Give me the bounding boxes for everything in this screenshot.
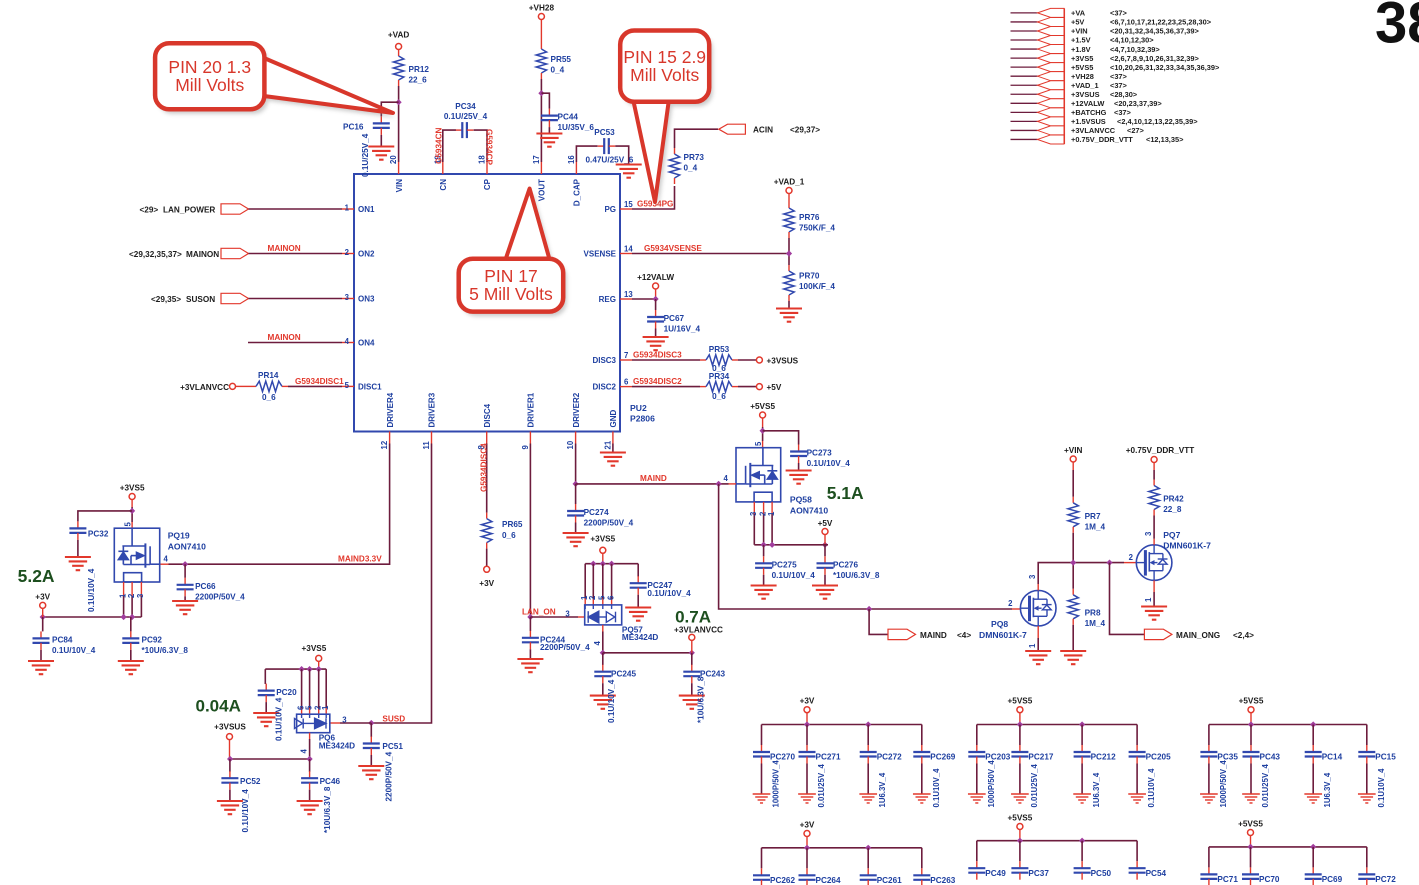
wire bbox=[806, 837, 808, 848]
svg-text:+0.75V_DDR_VTT: +0.75V_DDR_VTT bbox=[1126, 446, 1195, 455]
power rail legend bus bbox=[1064, 8, 1066, 144]
svg-text:+1.8V: +1.8V bbox=[1071, 45, 1091, 54]
legend rail +1.8V bbox=[1011, 45, 1161, 54]
ground bbox=[751, 586, 777, 599]
wire PC92 to ground bbox=[130, 650, 132, 661]
net SUSON labels bbox=[151, 295, 215, 304]
net ACIN labels bbox=[753, 126, 820, 135]
svg-text:<29,37>: <29,37> bbox=[790, 126, 820, 135]
capacitor PC264 bbox=[799, 868, 816, 885]
wire to PC50 bbox=[1081, 841, 1083, 862]
ground bbox=[1025, 651, 1051, 664]
wire PC205 to ground bbox=[1136, 764, 1138, 794]
wire PQ19 source rail bbox=[43, 616, 142, 618]
IC top pin names bbox=[395, 178, 582, 206]
svg-text:PR53: PR53 bbox=[709, 345, 730, 354]
svg-text:0.1U/10V_4: 0.1U/10V_4 bbox=[647, 589, 691, 598]
ground bbox=[65, 557, 91, 570]
wire to MAIN_ONG arrow bbox=[1110, 563, 1145, 635]
svg-text:+12VALW: +12VALW bbox=[1071, 99, 1104, 108]
svg-text:<6,7,10,17,21,22,23,25,28,30>: <6,7,10,17,21,22,23,25,28,30> bbox=[1110, 18, 1212, 27]
capacitor PC247 labels bbox=[647, 581, 691, 598]
wire PR73 to ACIN bbox=[675, 129, 719, 148]
terminal +3VS5 PQ19 bbox=[129, 494, 135, 500]
svg-text:PR7: PR7 bbox=[1085, 512, 1101, 521]
capacitor PC92 bbox=[122, 631, 139, 650]
svg-text:G5934DISC2: G5934DISC2 bbox=[633, 377, 682, 386]
svg-text:1: 1 bbox=[1028, 643, 1037, 648]
wire PR42 to PQ7 drain bbox=[1153, 516, 1155, 539]
wire PQ7 source to ground bbox=[1153, 592, 1155, 606]
wire pin13 REG bbox=[632, 298, 656, 300]
ground bbox=[297, 801, 323, 814]
resistor PR7 labels bbox=[1085, 512, 1106, 532]
wire to PC245 bbox=[602, 653, 604, 665]
svg-text:0.1U10V_4: 0.1U10V_4 bbox=[1377, 768, 1386, 808]
svg-text:+3VS5: +3VS5 bbox=[120, 484, 145, 493]
wire PC66 to ground bbox=[184, 596, 186, 600]
svg-text:DMN601K-7: DMN601K-7 bbox=[979, 630, 1027, 640]
ground bbox=[563, 533, 589, 546]
wire to PC66 bbox=[184, 564, 186, 578]
junction PC245 bbox=[600, 650, 606, 656]
svg-text:CN: CN bbox=[439, 179, 448, 191]
wire PC51 to ground bbox=[370, 755, 372, 766]
cap bank +5VS5 rail bbox=[1209, 846, 1367, 848]
transistor PQ7 DMN601K-7 bbox=[1136, 545, 1172, 581]
net MAINON labels pin2 bbox=[129, 250, 219, 259]
wire to PC262 bbox=[761, 848, 763, 869]
svg-text:G5934DISC1: G5934DISC1 bbox=[295, 377, 344, 386]
resistor PR8 labels bbox=[1085, 609, 1106, 629]
svg-text:REG: REG bbox=[599, 295, 616, 304]
svg-text:5: 5 bbox=[123, 522, 132, 527]
cap bank +5VS5 rail bbox=[1209, 724, 1367, 726]
wire bbox=[1072, 462, 1074, 470]
svg-text:PC15: PC15 bbox=[1375, 753, 1396, 762]
svg-text:PIN 20 1.3: PIN 20 1.3 bbox=[168, 57, 251, 77]
wire PC276 to ground bbox=[824, 575, 826, 585]
svg-text:+3VS5: +3VS5 bbox=[1071, 54, 1093, 63]
ground bbox=[1060, 651, 1086, 664]
wire to PC217 bbox=[1019, 725, 1021, 746]
svg-text:ME3424D: ME3424D bbox=[319, 741, 355, 750]
pin numbers 1 2 5 6 PQ57 bbox=[580, 595, 615, 600]
svg-text:3: 3 bbox=[342, 716, 347, 725]
svg-text:<4>: <4> bbox=[957, 631, 971, 640]
svg-text:SUSD: SUSD bbox=[382, 714, 405, 723]
svg-text:+1.5V: +1.5V bbox=[1071, 36, 1091, 45]
wire to PC273 bbox=[763, 431, 799, 445]
callout PIN 15 2.9 Mill Volts bbox=[620, 31, 713, 207]
wire to PC32 bbox=[78, 511, 132, 522]
svg-text:0_4: 0_4 bbox=[684, 164, 698, 173]
svg-text:MAINON: MAINON bbox=[268, 333, 301, 342]
capacitor PC44 labels bbox=[558, 113, 595, 133]
svg-text:<29>: <29> bbox=[140, 206, 159, 215]
svg-text:<4,7,10,32,39>: <4,7,10,32,39> bbox=[1110, 45, 1160, 54]
resistor PR53 labels bbox=[709, 345, 730, 373]
capacitor PC276 labels bbox=[833, 561, 880, 581]
terminal +5VS5 bbox=[1017, 824, 1023, 830]
svg-text:5: 5 bbox=[754, 441, 763, 446]
svg-text:P2806: P2806 bbox=[630, 414, 655, 424]
terminal +3VSUS bbox=[756, 357, 762, 363]
svg-text:+3VS5: +3VS5 bbox=[590, 535, 615, 544]
wire to PC51 bbox=[370, 723, 372, 737]
wire PQ57 pin bbox=[592, 564, 594, 599]
svg-text:+3VLANVCC: +3VLANVCC bbox=[674, 626, 723, 635]
wire to PC264 bbox=[806, 848, 808, 869]
svg-text:DRIVER2: DRIVER2 bbox=[572, 392, 581, 427]
svg-text:PR73: PR73 bbox=[684, 153, 705, 162]
wire to PC271 bbox=[806, 725, 808, 746]
svg-text:12: 12 bbox=[380, 440, 389, 449]
capacitor PC14 bbox=[1305, 745, 1322, 764]
svg-text:PC44: PC44 bbox=[558, 113, 579, 122]
ground bbox=[253, 713, 279, 726]
wire PC274 to ground bbox=[575, 523, 577, 533]
junction bbox=[1017, 838, 1023, 844]
wire PC275 to ground bbox=[763, 575, 765, 585]
wire PR76 to PR70 bbox=[788, 238, 790, 265]
svg-text:PQ8: PQ8 bbox=[991, 619, 1008, 629]
svg-text:0_6: 0_6 bbox=[262, 393, 276, 402]
input arrow SUSON bbox=[221, 293, 249, 303]
svg-text:PIN 15 2.9: PIN 15 2.9 bbox=[623, 47, 706, 67]
capacitor PC71 bbox=[1200, 867, 1217, 885]
capacitor PC244 labels bbox=[540, 635, 590, 652]
wire to PC272 bbox=[867, 725, 869, 746]
wire LAN_POWER to pin 1 bbox=[249, 208, 343, 210]
transistor PQ6 labels bbox=[319, 734, 355, 751]
svg-text:5: 5 bbox=[345, 381, 350, 390]
wire PC247 to ground bbox=[637, 595, 639, 607]
wire PQ8 source to ground bbox=[1037, 638, 1039, 651]
wire to MAIND arrow bbox=[869, 609, 888, 634]
legend rail +VA bbox=[1011, 8, 1128, 17]
capacitor PC243 labels bbox=[697, 670, 726, 724]
svg-text:*10U/6.3V_8: *10U/6.3V_8 bbox=[697, 676, 706, 723]
wire bbox=[655, 289, 657, 299]
ground bbox=[753, 794, 771, 803]
svg-text:+VA: +VA bbox=[1071, 9, 1086, 18]
ground bbox=[643, 337, 669, 350]
wire to PC54 bbox=[1136, 841, 1138, 862]
svg-text:1: 1 bbox=[321, 705, 330, 710]
terminal +5VS5 bbox=[1248, 830, 1254, 836]
svg-text:+3VSUS: +3VSUS bbox=[214, 723, 246, 732]
svg-text:1: 1 bbox=[345, 204, 350, 213]
svg-text:1: 1 bbox=[1144, 597, 1153, 602]
wire pin2 down bbox=[763, 514, 765, 545]
resistor PR34 labels bbox=[709, 372, 730, 401]
junction MAIND bbox=[573, 481, 579, 487]
junction PC66 tap bbox=[182, 561, 188, 567]
junction bbox=[1310, 721, 1316, 727]
capacitor PC203 bbox=[968, 745, 985, 764]
IC PU2 P2806 body bbox=[354, 174, 620, 432]
transistor PQ57 labels bbox=[622, 625, 658, 642]
svg-text:17: 17 bbox=[532, 155, 541, 164]
svg-text:1000P/50V_4: 1000P/50V_4 bbox=[1219, 760, 1228, 808]
svg-text:<27>: <27> bbox=[1127, 126, 1145, 135]
svg-text:5 Mill Volts: 5 Mill Volts bbox=[469, 284, 553, 304]
terminal +5VS5 PQ58 bbox=[760, 412, 766, 418]
ground bbox=[913, 794, 931, 803]
junction bbox=[761, 542, 767, 548]
transistor PQ8 DMN601K-7 bbox=[1020, 590, 1056, 626]
wire pin14 VSENSE bbox=[632, 253, 789, 255]
ground bbox=[118, 661, 144, 674]
svg-text:<29,35>: <29,35> bbox=[151, 295, 181, 304]
capacitor PC52 labels bbox=[240, 777, 261, 833]
wire bbox=[318, 661, 320, 669]
svg-text:+5VS5: +5VS5 bbox=[1007, 697, 1032, 706]
wire PC203 to ground bbox=[976, 764, 978, 794]
ground bbox=[1242, 794, 1260, 803]
capacitor PC15 bbox=[1358, 745, 1375, 764]
capacitor PC51 bbox=[363, 737, 380, 756]
wire to PC92 bbox=[130, 617, 132, 631]
wire to PC276 bbox=[824, 545, 826, 557]
svg-text:GND: GND bbox=[609, 410, 618, 428]
wire PC273 to ground bbox=[798, 463, 800, 470]
svg-text:VOUT: VOUT bbox=[538, 179, 547, 201]
svg-text:2200P/50V_4: 2200P/50V_4 bbox=[540, 643, 590, 652]
legend rail +5V bbox=[1011, 17, 1212, 26]
wire to PC44 bbox=[541, 93, 549, 108]
svg-text:2200P/50V_4: 2200P/50V_4 bbox=[385, 751, 394, 801]
wire to PC15 bbox=[1366, 725, 1368, 746]
terminal +5V PQ58 bbox=[822, 529, 828, 535]
output arrow ACIN bbox=[719, 124, 746, 134]
transistor PQ19 AON7410 bbox=[114, 528, 159, 582]
transistor PQ58 AON7410 bbox=[736, 448, 781, 502]
svg-text:PC34: PC34 bbox=[455, 102, 476, 111]
capacitor PC244 bbox=[522, 631, 539, 650]
terminal +3V pin8 bbox=[484, 566, 490, 572]
svg-text:3: 3 bbox=[345, 293, 350, 302]
wire PC46 to ground bbox=[309, 790, 311, 801]
wire PC244 to ground bbox=[529, 649, 531, 658]
svg-text:+VIN: +VIN bbox=[1071, 27, 1088, 36]
wire PQ6 pin bbox=[309, 669, 311, 708]
svg-text:*10U/6.3V_8: *10U/6.3V_8 bbox=[833, 571, 880, 580]
resistor PR55 labels bbox=[551, 55, 572, 75]
wire to PC212 bbox=[1081, 725, 1083, 746]
junction bbox=[590, 561, 596, 567]
svg-text:13: 13 bbox=[624, 290, 633, 299]
IC right pin names bbox=[584, 205, 617, 392]
svg-text:DISC4: DISC4 bbox=[483, 403, 492, 427]
svg-text:3: 3 bbox=[565, 610, 570, 619]
wire pin3 down bbox=[140, 596, 142, 617]
capacitor PC35 bbox=[1200, 745, 1217, 764]
junction +3VS5 rail bbox=[316, 666, 322, 672]
svg-text:1U6.3V_4: 1U6.3V_4 bbox=[878, 772, 887, 807]
ground bbox=[1200, 794, 1218, 803]
svg-text:SUSON: SUSON bbox=[186, 295, 215, 304]
svg-text:11: 11 bbox=[422, 441, 431, 450]
svg-text:PC14: PC14 bbox=[1322, 753, 1343, 762]
wire pin7 DISC3 bbox=[632, 359, 700, 361]
svg-text:<29,32,35,37>: <29,32,35,37> bbox=[129, 250, 182, 259]
svg-text:PC54: PC54 bbox=[1146, 869, 1167, 878]
svg-text:+VH28: +VH28 bbox=[1071, 72, 1094, 81]
resistor PR14 labels bbox=[258, 371, 279, 402]
svg-text:PIN 17: PIN 17 bbox=[484, 266, 538, 286]
terminal +3VS5 PQ57 bbox=[600, 547, 606, 553]
wire bbox=[1250, 836, 1252, 847]
capacitor PC217 bbox=[1011, 745, 1028, 764]
wire pin1 down bbox=[771, 514, 773, 545]
callout PIN 17 5 Mill Volts bbox=[459, 189, 567, 317]
capacitor PC276 bbox=[817, 556, 834, 575]
svg-text:1U/16V_4: 1U/16V_4 bbox=[664, 325, 701, 334]
svg-text:ACIN: ACIN bbox=[753, 126, 773, 135]
svg-text:MAIND: MAIND bbox=[640, 474, 667, 483]
wire PC35 to ground bbox=[1208, 764, 1210, 794]
svg-text:+3V: +3V bbox=[35, 593, 50, 602]
net MAIND arrow labels bbox=[920, 631, 971, 640]
wire source rail to +5V bbox=[754, 544, 822, 546]
junction VSENSE divider bbox=[786, 250, 792, 256]
transistor PQ57 ME3424D bbox=[585, 605, 622, 625]
svg-text:+BATCHG: +BATCHG bbox=[1071, 108, 1107, 117]
svg-text:VIN: VIN bbox=[395, 179, 404, 193]
svg-text:PC52: PC52 bbox=[240, 777, 261, 786]
svg-text:+3V: +3V bbox=[800, 697, 815, 706]
svg-text:+VH28: +VH28 bbox=[529, 4, 555, 13]
wire bbox=[1250, 713, 1252, 725]
svg-text:PC271: PC271 bbox=[816, 753, 841, 762]
legend rail +VIN bbox=[1011, 26, 1200, 35]
svg-text:6: 6 bbox=[624, 378, 629, 387]
svg-text:0.1U/25V_4: 0.1U/25V_4 bbox=[361, 133, 370, 177]
svg-text:5.1A: 5.1A bbox=[827, 483, 864, 503]
svg-text:PC205: PC205 bbox=[1146, 753, 1171, 762]
svg-text:PC32: PC32 bbox=[88, 530, 109, 539]
svg-text:G5934DISC3: G5934DISC3 bbox=[633, 351, 682, 360]
wire bbox=[1153, 463, 1155, 471]
wire pin9 DRIVER1 bbox=[529, 444, 531, 618]
ground bbox=[536, 134, 562, 147]
wire to PC203 bbox=[976, 725, 978, 746]
terminal +3V bbox=[804, 707, 810, 713]
svg-text:PR70: PR70 bbox=[799, 272, 820, 281]
transistor PQ58 labels bbox=[790, 495, 828, 516]
svg-text:<20,31,32,34,35,36,37,39>: <20,31,32,34,35,36,37,39> bbox=[1110, 27, 1199, 36]
svg-text:PC217: PC217 bbox=[1028, 753, 1053, 762]
svg-text:+0.75V_DDR_VTT: +0.75V_DDR_VTT bbox=[1071, 135, 1133, 144]
wire bbox=[822, 544, 828, 546]
svg-text:LAN_ON: LAN_ON bbox=[522, 608, 556, 617]
svg-text:+3VSUS: +3VSUS bbox=[767, 357, 799, 366]
junction bbox=[1079, 721, 1085, 727]
svg-text:MAINON: MAINON bbox=[268, 244, 301, 253]
wire PC67 to ground bbox=[655, 329, 657, 337]
junction PQ57 rail bbox=[609, 561, 615, 567]
svg-text:+VAD: +VAD bbox=[388, 31, 410, 40]
svg-text:PC43: PC43 bbox=[1260, 753, 1281, 762]
cap bank +3V rail bbox=[762, 724, 922, 726]
junction MAIN_ONG branch bbox=[1106, 560, 1112, 566]
wire to PC270 bbox=[761, 725, 763, 746]
junction MAIND arrow branch bbox=[866, 606, 872, 612]
capacitor PC243 bbox=[683, 665, 700, 684]
wire PQ58 source pins bbox=[754, 502, 772, 514]
wire to PC243 bbox=[691, 653, 693, 665]
junction bbox=[1247, 844, 1253, 850]
wire PC15 to ground bbox=[1366, 764, 1368, 794]
svg-text:+5VS5: +5VS5 bbox=[1238, 820, 1263, 829]
svg-text:2: 2 bbox=[588, 595, 597, 600]
legend rail +3VLANVCC bbox=[1011, 126, 1145, 135]
svg-text:1U6.3V_4: 1U6.3V_4 bbox=[1323, 772, 1332, 807]
cap bank +5VS5 rail bbox=[977, 840, 1137, 842]
capacitor PC53 labels bbox=[586, 128, 634, 165]
svg-text:PC212: PC212 bbox=[1091, 753, 1116, 762]
svg-text:PC69: PC69 bbox=[1322, 875, 1343, 884]
terminal +5V bbox=[756, 384, 762, 390]
junction +3V node bbox=[40, 614, 46, 620]
svg-text:+12VALW: +12VALW bbox=[637, 273, 674, 282]
terminal +3V PQ19 bbox=[40, 602, 46, 608]
wire PC32 to ground bbox=[77, 540, 79, 557]
svg-text:PC71: PC71 bbox=[1217, 875, 1238, 884]
junction bbox=[600, 561, 606, 567]
junction bbox=[804, 721, 810, 727]
junction PC32 tap bbox=[129, 508, 135, 514]
svg-text:+VAD_1: +VAD_1 bbox=[1071, 81, 1099, 90]
ground bbox=[1358, 794, 1376, 803]
svg-text:PQ19: PQ19 bbox=[168, 531, 190, 541]
capacitor PC212 bbox=[1074, 745, 1091, 764]
wire +3VSUS rail bbox=[230, 758, 310, 760]
svg-text:4: 4 bbox=[164, 555, 169, 564]
svg-text:2: 2 bbox=[1008, 599, 1013, 608]
svg-text:PR12: PR12 bbox=[409, 65, 430, 74]
junction bbox=[865, 845, 871, 851]
wire MAINON to pin 4 bbox=[248, 342, 342, 344]
wire to PC205 bbox=[1136, 725, 1138, 746]
wire MAIND down and right bbox=[719, 484, 870, 609]
wire bbox=[1019, 830, 1021, 841]
wire bbox=[229, 740, 231, 759]
wire to PC70 bbox=[1250, 847, 1252, 868]
capacitor PC20 bbox=[258, 684, 275, 703]
svg-text:0.1U/10V_4: 0.1U/10V_4 bbox=[607, 679, 616, 723]
wire pin16 to PC53 bbox=[576, 146, 597, 162]
capacitor PC84 bbox=[33, 631, 50, 650]
svg-text:0.1U10V_4: 0.1U10V_4 bbox=[932, 768, 941, 808]
wire to PC261 bbox=[867, 848, 869, 869]
svg-text:VSENSE: VSENSE bbox=[584, 250, 617, 259]
svg-text:<12,13,35>: <12,13,35> bbox=[1146, 135, 1184, 144]
svg-text:22_6: 22_6 bbox=[409, 76, 428, 85]
wire pin3 down bbox=[753, 514, 755, 545]
svg-text:<28,30>: <28,30> bbox=[1110, 90, 1138, 99]
wire MAINON to pin 2 bbox=[249, 253, 343, 255]
junction bbox=[1079, 838, 1085, 844]
wire to PC275 bbox=[763, 545, 765, 557]
IC pin numbers bbox=[345, 155, 634, 450]
svg-text:+VAD_1: +VAD_1 bbox=[774, 178, 805, 187]
svg-text:PC53: PC53 bbox=[594, 128, 615, 137]
pin numbers 6 5 2 1 PQ6 bbox=[296, 705, 330, 710]
svg-text:PC51: PC51 bbox=[382, 742, 403, 751]
